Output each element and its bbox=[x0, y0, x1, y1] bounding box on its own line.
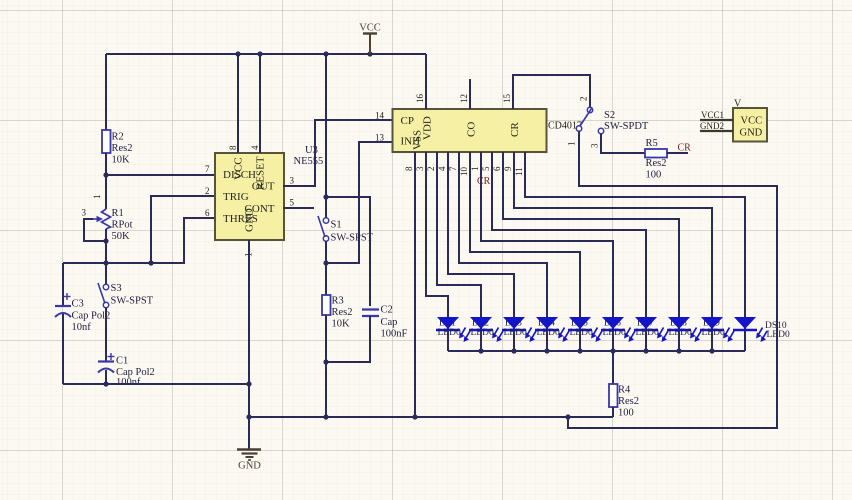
wire R3 to node bbox=[325, 315, 327, 362]
LED DS10 bbox=[733, 317, 790, 342]
svg-text:13: 13 bbox=[375, 133, 385, 143]
resistor R5 bbox=[645, 138, 667, 181]
svg-text:9: 9 bbox=[503, 166, 513, 171]
svg-text:1: 1 bbox=[470, 167, 480, 172]
LED DS7 bbox=[634, 317, 668, 342]
junction wiper/bottom bbox=[103, 238, 108, 243]
svg-text:SW-SPDT: SW-SPDT bbox=[604, 121, 649, 132]
svg-text:10K: 10K bbox=[332, 319, 351, 330]
capacitor C2 bbox=[362, 305, 408, 340]
svg-text:CR: CR bbox=[477, 176, 491, 187]
svg-text:RPot: RPot bbox=[112, 220, 133, 231]
svg-text:10nf: 10nf bbox=[72, 322, 92, 333]
svg-text:50K: 50K bbox=[112, 231, 131, 242]
svg-text:Cap Pol2: Cap Pol2 bbox=[72, 311, 111, 322]
junction TRIG/THRES bbox=[148, 260, 153, 265]
junction 555 gnd line bbox=[246, 381, 251, 386]
CD4017 pin numbers left/top bbox=[375, 94, 512, 143]
capacitor C1 bbox=[98, 353, 155, 388]
wire S3 to C1 bbox=[105, 308, 107, 362]
svg-text:CR: CR bbox=[509, 122, 521, 137]
junction gnd symbol bbox=[246, 414, 251, 419]
junction cathode rail x=712 bbox=[709, 348, 714, 353]
junction cathode rail x=613 bbox=[610, 348, 615, 353]
wire Q4 pin to LED5 bbox=[470, 152, 580, 318]
wire Q7 pin to LED8 bbox=[503, 152, 679, 318]
wire down to C3 bbox=[62, 263, 64, 306]
potentiometer R1 bbox=[82, 175, 133, 242]
wire C2 bottom to R3 node bbox=[326, 316, 370, 362]
svg-text:LED0: LED0 bbox=[603, 328, 626, 338]
CD4017 pin names bbox=[401, 115, 522, 150]
svg-text:Res2: Res2 bbox=[112, 143, 133, 154]
wire CD4017 pin13 INH to S1 bottom node bbox=[326, 142, 392, 263]
svg-text:VCC: VCC bbox=[741, 116, 763, 127]
wire S2 pin1 return to gnd bbox=[568, 131, 777, 428]
wire S2 pin3 to R5 bbox=[601, 134, 645, 153]
svg-text:CP: CP bbox=[401, 115, 414, 127]
wire C1 to node bbox=[105, 370, 107, 384]
svg-text:100: 100 bbox=[618, 408, 634, 419]
op-amp U3 NE555 body bbox=[215, 153, 284, 240]
pin 5 CONT stub bbox=[283, 207, 314, 209]
junction rail/VCC port bbox=[367, 51, 372, 56]
svg-text:16: 16 bbox=[415, 94, 425, 104]
svg-text:10K: 10K bbox=[112, 155, 131, 166]
svg-text:3: 3 bbox=[590, 143, 600, 148]
junction rail/S1 branch bbox=[323, 51, 328, 56]
wire 555 pin4 RESET bbox=[259, 54, 261, 153]
svg-text:4: 4 bbox=[250, 145, 260, 150]
svg-text:5: 5 bbox=[481, 166, 491, 171]
svg-text:RESET: RESET bbox=[255, 156, 267, 190]
wire Q0 pin to LED1 bbox=[426, 152, 448, 318]
svg-text:Cap: Cap bbox=[381, 317, 398, 328]
junction node A bbox=[103, 260, 108, 265]
svg-text:LED0: LED0 bbox=[438, 328, 461, 338]
CD4017 bottom pin numbers bbox=[404, 166, 524, 176]
svg-text:7: 7 bbox=[448, 166, 458, 171]
LED DS8 bbox=[667, 317, 701, 342]
junction S1 bottom/R3 bbox=[323, 260, 328, 265]
svg-text:10: 10 bbox=[459, 167, 469, 177]
svg-text:LED0: LED0 bbox=[669, 328, 692, 338]
wire LED3 cathode bbox=[513, 331, 515, 351]
U3 pin numbers bbox=[205, 145, 295, 257]
svg-text:1: 1 bbox=[92, 195, 102, 200]
wire ground rail bbox=[249, 416, 613, 418]
svg-text:TRIG: TRIG bbox=[223, 191, 249, 203]
svg-text:2: 2 bbox=[579, 97, 589, 102]
svg-text:LED0: LED0 bbox=[570, 328, 593, 338]
V pin VCC1 bbox=[700, 119, 733, 121]
wire LED1 cathode bbox=[447, 331, 449, 351]
wire LED10 cathode bbox=[744, 331, 746, 351]
svg-text:11: 11 bbox=[514, 167, 524, 176]
junction rail/555 pin8 bbox=[235, 51, 240, 56]
svg-text:VDD: VDD bbox=[422, 116, 434, 140]
svg-text:GND2: GND2 bbox=[700, 121, 724, 131]
junction C1 bottom bbox=[103, 381, 108, 386]
svg-text:LED0: LED0 bbox=[504, 328, 527, 338]
wire R2 to node bbox=[105, 153, 107, 175]
wire node to TRIG branch bbox=[106, 262, 151, 264]
wire pin15 CR to S2 pin2 bbox=[513, 75, 590, 109]
wire LED7 cathode bbox=[645, 331, 647, 351]
wire to S1 bbox=[325, 197, 327, 218]
wire node to S3 bbox=[105, 263, 107, 284]
switch S1 SW-SPST bbox=[318, 216, 374, 244]
wire to 555 DISC pin7 bbox=[106, 174, 215, 176]
junction S1 top bbox=[323, 194, 328, 199]
svg-text:R2: R2 bbox=[112, 132, 124, 143]
svg-text:VCC1: VCC1 bbox=[701, 110, 724, 120]
svg-text:LED0: LED0 bbox=[767, 330, 790, 340]
LED DS2 bbox=[469, 317, 503, 342]
svg-text:100nF: 100nF bbox=[381, 329, 408, 340]
wire Q3 pin to LED4 bbox=[459, 152, 547, 318]
switch S3 SW-SPST bbox=[98, 283, 154, 308]
junction cathode rail x=580 bbox=[577, 348, 582, 353]
svg-text:GND: GND bbox=[244, 208, 256, 232]
svg-text:2: 2 bbox=[426, 167, 436, 172]
wire LED9 cathode bbox=[711, 331, 713, 351]
svg-text:12: 12 bbox=[459, 94, 469, 103]
svg-text:S2: S2 bbox=[604, 110, 615, 121]
svg-text:15: 15 bbox=[502, 94, 512, 104]
wire rail to R4 bbox=[612, 351, 614, 384]
svg-text:GND: GND bbox=[740, 128, 763, 139]
junction cathode rail x=481 bbox=[478, 348, 483, 353]
LED DS5 bbox=[568, 317, 602, 342]
svg-text:100: 100 bbox=[646, 170, 662, 181]
wire OUT to CP pin14 bbox=[283, 120, 392, 186]
wire LED cathode rail bbox=[448, 350, 745, 352]
wire C3 down bbox=[62, 314, 64, 384]
connector V bbox=[733, 99, 767, 142]
wire Q9 pin to LED10 bbox=[525, 152, 745, 318]
svg-text:V: V bbox=[734, 99, 742, 110]
svg-text:6: 6 bbox=[205, 208, 210, 218]
IC CD4017 body bbox=[393, 109, 547, 152]
junction cathode rail x=514 bbox=[511, 348, 516, 353]
wire node to C2 bbox=[326, 197, 370, 306]
LED DS3 bbox=[502, 317, 536, 342]
svg-text:GND: GND bbox=[238, 461, 261, 472]
svg-text:S3: S3 bbox=[111, 283, 122, 294]
svg-text:Res2: Res2 bbox=[332, 307, 353, 318]
wire R1 wiper bracket bbox=[84, 219, 106, 241]
svg-text:VCC: VCC bbox=[359, 23, 381, 34]
svg-text:14: 14 bbox=[375, 111, 385, 121]
wire Q5 pin to LED6 bbox=[481, 152, 613, 318]
svg-text:C2: C2 bbox=[381, 305, 393, 316]
wire LED6 cathode bbox=[612, 331, 614, 351]
svg-text:1: 1 bbox=[567, 142, 577, 147]
wire LED2 cathode bbox=[480, 331, 482, 351]
wire LED8 cathode bbox=[678, 331, 680, 351]
svg-text:R4: R4 bbox=[618, 385, 631, 396]
wire rail to pin16 VDD bbox=[425, 54, 427, 109]
svg-text:CO: CO bbox=[466, 122, 478, 137]
junction cathode rail x=547 bbox=[544, 348, 549, 353]
svg-text:2: 2 bbox=[205, 186, 210, 196]
wire rail to R2 bbox=[105, 54, 107, 130]
capacitor C3 bbox=[55, 293, 110, 333]
wire VSS pin8 to gnd rail bbox=[414, 152, 416, 417]
svg-text:8: 8 bbox=[228, 145, 238, 150]
wire C3 to C1 node bbox=[63, 383, 106, 385]
wire node to C3 branch bbox=[63, 262, 106, 264]
resistor R4 bbox=[609, 384, 639, 419]
junction R3 branch gnd bbox=[323, 414, 328, 419]
LED DS4 bbox=[535, 317, 569, 342]
wire node to gnd rail bbox=[325, 362, 327, 417]
svg-text:Res2: Res2 bbox=[646, 158, 667, 169]
LED DS1 bbox=[436, 317, 470, 342]
wire Q6 pin to LED7 bbox=[492, 152, 646, 318]
resistor R3 bbox=[322, 263, 353, 330]
wire Q8 pin to LED9 bbox=[514, 152, 712, 318]
wire 555 pin1 GND down bbox=[248, 240, 250, 417]
svg-text:LED0: LED0 bbox=[636, 328, 659, 338]
svg-text:LED0: LED0 bbox=[702, 328, 725, 338]
svg-text:6: 6 bbox=[492, 166, 502, 171]
wire pot to node bbox=[105, 241, 107, 263]
LED DS6 bbox=[601, 317, 635, 342]
svg-text:3: 3 bbox=[82, 208, 87, 218]
resistor R2 bbox=[102, 130, 133, 166]
svg-text:LED0: LED0 bbox=[471, 328, 494, 338]
svg-text:NE555: NE555 bbox=[294, 156, 324, 167]
wire 555 pin8 VCC bbox=[237, 54, 239, 153]
junction S2 return gnd bbox=[565, 414, 570, 419]
svg-text:C1: C1 bbox=[116, 356, 128, 367]
junction R2/DISC/R1 bbox=[103, 172, 108, 177]
svg-text:S1: S1 bbox=[331, 220, 342, 231]
V pin GND2 bbox=[700, 130, 733, 132]
U3 pin names bbox=[223, 156, 275, 232]
wire to 555 THRES pin6 bbox=[151, 218, 215, 263]
wire rail down to S1 node bbox=[325, 54, 327, 197]
junction VSS gnd bbox=[412, 414, 417, 419]
pin 12 CO stub bbox=[469, 79, 471, 109]
junction cathode rail x=679 bbox=[676, 348, 681, 353]
junction rail/555 pin4 bbox=[257, 51, 262, 56]
wire R4 to gnd rail bbox=[612, 407, 614, 417]
svg-text:R5: R5 bbox=[646, 138, 658, 149]
wire to 555 TRIG pin2 bbox=[151, 196, 215, 263]
svg-text:SW-SPST: SW-SPST bbox=[111, 296, 154, 307]
svg-text:4: 4 bbox=[437, 166, 447, 171]
junction R3 bottom/C2 bbox=[323, 359, 328, 364]
svg-text:7: 7 bbox=[205, 164, 210, 174]
LED DS9 bbox=[700, 317, 734, 342]
wire S1 to node bbox=[325, 241, 327, 263]
svg-text:8: 8 bbox=[404, 166, 414, 171]
wire VCC top rail bbox=[106, 53, 426, 55]
svg-text:3: 3 bbox=[415, 166, 425, 171]
svg-text:3: 3 bbox=[290, 176, 295, 186]
wire R5 to CR bbox=[667, 152, 688, 154]
svg-text:R3: R3 bbox=[332, 296, 344, 307]
svg-text:5: 5 bbox=[290, 198, 295, 208]
wire LED5 cathode bbox=[579, 331, 581, 351]
svg-text:C3: C3 bbox=[72, 299, 84, 310]
wire Q1 pin to LED2 bbox=[437, 152, 481, 318]
power port VCC bbox=[359, 23, 381, 55]
ground symbol GND bbox=[237, 417, 261, 472]
svg-text:R1: R1 bbox=[112, 208, 124, 219]
svg-text:SW-SPST: SW-SPST bbox=[331, 233, 374, 244]
junction cathode rail x=646 bbox=[643, 348, 648, 353]
svg-text:VCC: VCC bbox=[233, 157, 245, 180]
wire Q2 pin to LED3 bbox=[448, 152, 514, 318]
svg-text:Res2: Res2 bbox=[618, 396, 639, 407]
svg-text:LED0: LED0 bbox=[537, 328, 560, 338]
svg-text:CR: CR bbox=[678, 143, 692, 154]
switch S2 SW-SPDT bbox=[567, 97, 649, 149]
wire LED4 cathode bbox=[546, 331, 548, 351]
svg-text:100nf: 100nf bbox=[116, 377, 141, 388]
wire gnd link bbox=[106, 383, 249, 385]
